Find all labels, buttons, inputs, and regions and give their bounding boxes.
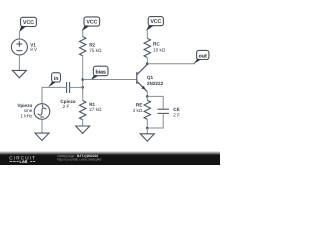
wire CE bottom to bottom node xyxy=(147,113,163,128)
wire bottom node to ground xyxy=(146,128,148,134)
wire RE to bottom node xyxy=(146,119,148,128)
resistor RE xyxy=(144,100,150,119)
ground G2 xyxy=(35,133,49,140)
svg-text:out: out xyxy=(199,53,207,59)
net flag bias xyxy=(91,66,108,80)
svg-text:sine: sine xyxy=(24,108,33,113)
wire V1 minus to ground xyxy=(18,55,20,70)
node bias junction dot xyxy=(81,78,84,81)
source Vpiezo xyxy=(34,104,50,120)
node emitter junction dot xyxy=(146,95,149,98)
wire collector node to out flag xyxy=(147,63,195,65)
svg-text:http://circuitlab.com/c/9wbqf4: http://circuitlab.com/c/9wbqf4d xyxy=(57,158,102,162)
svg-text:2 F: 2 F xyxy=(63,104,70,109)
wire RC to collector node xyxy=(146,58,148,64)
svg-text:3 kΩ: 3 kΩ xyxy=(133,108,143,113)
wire emitter node to CE top xyxy=(147,96,163,109)
node cap junction dot xyxy=(81,86,84,89)
wire emitter to RE node xyxy=(146,92,148,96)
ground G3 xyxy=(76,126,90,133)
svg-text:CE: CE xyxy=(173,107,179,112)
svg-text:VCC: VCC xyxy=(86,20,97,26)
capacitor Cpiezo xyxy=(67,82,70,93)
wire Cpiezo right plate to bias column xyxy=(70,86,83,88)
svg-text:VCC: VCC xyxy=(23,20,34,26)
net flag out xyxy=(194,50,209,63)
svg-text:27 kΩ: 27 kΩ xyxy=(89,107,102,112)
wire R1 to ground xyxy=(82,120,84,126)
wire Vpiezo to Cpiezo left plate xyxy=(42,87,67,103)
capacitor CE xyxy=(158,109,169,113)
svg-text:LAB: LAB xyxy=(20,159,28,164)
resistor R1 xyxy=(80,101,86,120)
svg-text:R2: R2 xyxy=(89,42,95,47)
svg-text:1 kHz: 1 kHz xyxy=(20,113,33,118)
svg-text:8 V: 8 V xyxy=(30,47,38,52)
svg-text:75 kΩ: 75 kΩ xyxy=(89,48,102,53)
svg-text:VCC: VCC xyxy=(150,19,161,25)
node out junction dot xyxy=(146,62,149,65)
svg-text:Q1: Q1 xyxy=(147,75,154,80)
emitter arrow of Q1 xyxy=(141,86,145,90)
wire Vpiezo to ground xyxy=(41,119,43,133)
svg-text:10 kΩ: 10 kΩ xyxy=(153,48,166,53)
wire bias node to Q1 base xyxy=(83,79,137,81)
wire VCC flag to V1 plus xyxy=(18,31,20,39)
svg-text:2 F: 2 F xyxy=(173,113,180,118)
svg-text:RC: RC xyxy=(153,42,160,47)
transistor Q1 xyxy=(137,64,148,91)
net flag VCC (above R2) xyxy=(82,17,100,31)
wire node to RE xyxy=(146,96,148,100)
svg-text:RE: RE xyxy=(136,103,142,108)
wire flag to RC xyxy=(146,30,148,38)
net flag in xyxy=(48,73,60,88)
wire bias node down to R1 xyxy=(82,87,84,100)
voltage source V1 xyxy=(11,39,27,55)
resistor R2 xyxy=(80,37,86,56)
node bottom junction dot xyxy=(146,127,149,130)
net flag VCC (above RC) xyxy=(146,17,163,31)
svg-text:2N2222: 2N2222 xyxy=(147,81,164,86)
svg-text:in: in xyxy=(54,76,59,82)
wire flag to R2 xyxy=(82,31,84,37)
resistor RC xyxy=(144,38,150,57)
ground G1 xyxy=(12,70,26,77)
svg-text:bias: bias xyxy=(96,70,106,76)
wire R2 to bias node xyxy=(82,56,84,88)
ground G4 xyxy=(140,134,154,141)
net flag VCC (above V1) xyxy=(19,17,36,32)
